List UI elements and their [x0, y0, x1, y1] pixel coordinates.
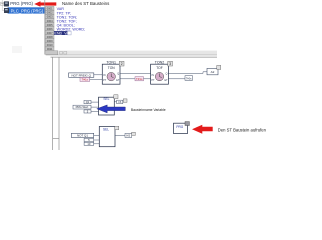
time value box T#1s (PT input) — [80, 77, 90, 81]
svg-text:0003: 0003 — [47, 15, 53, 19]
svg-text:10: 10 — [87, 142, 90, 146]
svg-text:T#1s: T#1s — [136, 77, 143, 81]
wire 5 to SEL — [91, 111, 99, 113]
input box 10 (network 3) — [84, 142, 94, 146]
SEL block (network 3) — [99, 127, 115, 147]
svg-text:0002: 0002 — [47, 11, 53, 15]
blue annotation arrow (points to PRG.Wert) — [97, 105, 126, 113]
lower window left double border — [53, 57, 59, 150]
svg-text:PLC_PRG (PRG): PLC_PRG (PRG) — [11, 8, 44, 13]
POU icon 2 — [4, 8, 9, 13]
TON1 order number box — [119, 61, 124, 66]
wire SEL out to HS — [115, 134, 125, 136]
output box C6 — [117, 100, 123, 104]
svg-text:A2: A2 — [211, 70, 215, 74]
declaration text lines — [57, 7, 85, 31]
faint icon remnant left of lower window — [12, 46, 22, 53]
svg-text:PRG.Wert: PRG.Wert — [76, 105, 89, 109]
svg-text:0008: 0008 — [47, 35, 53, 39]
svg-text:ET: ET — [116, 79, 120, 82]
wire TON2.ET to value box — [168, 78, 185, 80]
wire value box to TON2.PT — [144, 78, 151, 80]
svg-text:0006: 0006 — [47, 27, 53, 31]
red annotation arrow 1 (points to ST block name) — [34, 1, 56, 6]
svg-text:Den ST Baustein aufrufen: Den ST Baustein aufrufen — [218, 127, 267, 132]
svg-text:T#1s: T#1s — [82, 78, 89, 82]
PRG call box (ST block call) — [174, 123, 188, 133]
timer block TON1 — [102, 61, 120, 85]
svg-text:Bausteinname Variable: Bausteinname Variable — [131, 108, 166, 112]
wire 10 to SEL — [94, 143, 100, 145]
SEL order number box (network 2) — [114, 95, 118, 99]
time value box T#1s (between blocks) — [135, 77, 144, 81]
svg-text:TOF: TOF — [156, 66, 163, 70]
svg-text:Name des ST Bausteins: Name des ST Bausteins — [62, 1, 110, 6]
svg-text:3: 3 — [169, 62, 171, 66]
wire 5 to SEL — [94, 139, 100, 141]
svg-text:T#0s: T#0s — [186, 77, 192, 80]
wire PRG.Wert to SEL — [91, 106, 99, 108]
wire TON1.ET to value box — [120, 78, 135, 80]
svg-text:2: 2 — [121, 62, 123, 66]
wire Q1 to SEL — [91, 101, 99, 103]
svg-text:PT: PT — [151, 79, 155, 82]
svg-text:Q: Q — [117, 73, 119, 76]
output box A2 — [207, 68, 218, 74]
input box 5 (network 3) — [84, 138, 94, 142]
POU icon 1 — [4, 2, 9, 7]
input box 5 — [84, 110, 91, 114]
svg-text:IN: IN — [103, 74, 106, 77]
SEL block (network 2) — [99, 97, 115, 115]
HS order number box — [132, 132, 136, 135]
wire input to TON1.IN — [94, 74, 103, 76]
svg-text:ET: ET — [164, 79, 168, 82]
svg-text:0009: 0009 — [47, 39, 53, 43]
TON2 order number box — [168, 61, 173, 66]
svg-text:0007: 0007 — [47, 31, 53, 35]
svg-text:0005: 0005 — [47, 23, 53, 27]
selection bar of tree item 2 — [8, 7, 46, 13]
svg-text:PRG: PRG — [176, 125, 183, 129]
SEL order number box (network 3) — [115, 126, 119, 129]
declaration editor line-number boxes — [45, 6, 54, 51]
red annotation arrow 2 (points to PRG call) — [192, 125, 213, 134]
PRG order number box — [185, 122, 189, 126]
svg-text:PT: PT — [103, 79, 107, 82]
svg-text:HS: HS — [126, 134, 130, 138]
wire NOT Q1 to SEL — [94, 134, 100, 136]
svg-text:NOT Q1: NOT Q1 — [77, 134, 88, 138]
tree connector lines — [1, 0, 5, 11]
wire T#1s to TON1.PT — [90, 79, 103, 81]
svg-text:Q: Q — [166, 73, 168, 76]
time value box T#0s — [185, 76, 193, 81]
svg-text:SEL: SEL — [103, 97, 109, 101]
END_VAR selected line — [54, 31, 72, 35]
C6 order number box — [123, 99, 127, 102]
timer block TON2 — [151, 61, 169, 85]
svg-text:0001: 0001 — [47, 7, 53, 11]
input box Q1 — [84, 100, 91, 104]
output box HS — [125, 133, 132, 137]
wire TON1.Q to TON2.IN — [120, 72, 151, 74]
svg-text:Q1: Q1 — [86, 100, 90, 104]
svg-text:SEL: SEL — [103, 128, 109, 132]
wire SEL out to C6 — [114, 101, 116, 103]
svg-text:0010: 0010 — [47, 43, 53, 47]
svg-text:IN: IN — [151, 74, 154, 77]
input box NOT FREIG.Q — [69, 73, 94, 78]
svg-text:0004: 0004 — [47, 19, 53, 23]
input box NOT Q1 — [71, 133, 93, 137]
splitter line between tree and editor — [44, 0, 46, 55]
svg-text:PRG (PRG): PRG (PRG) — [10, 1, 33, 6]
input box PRG.Wert — [73, 105, 91, 109]
svg-text:TON: TON — [108, 66, 116, 70]
A2 order number box — [217, 65, 221, 69]
lower window top band — [46, 51, 217, 58]
wire TON2.Q to output A2 — [168, 72, 207, 74]
